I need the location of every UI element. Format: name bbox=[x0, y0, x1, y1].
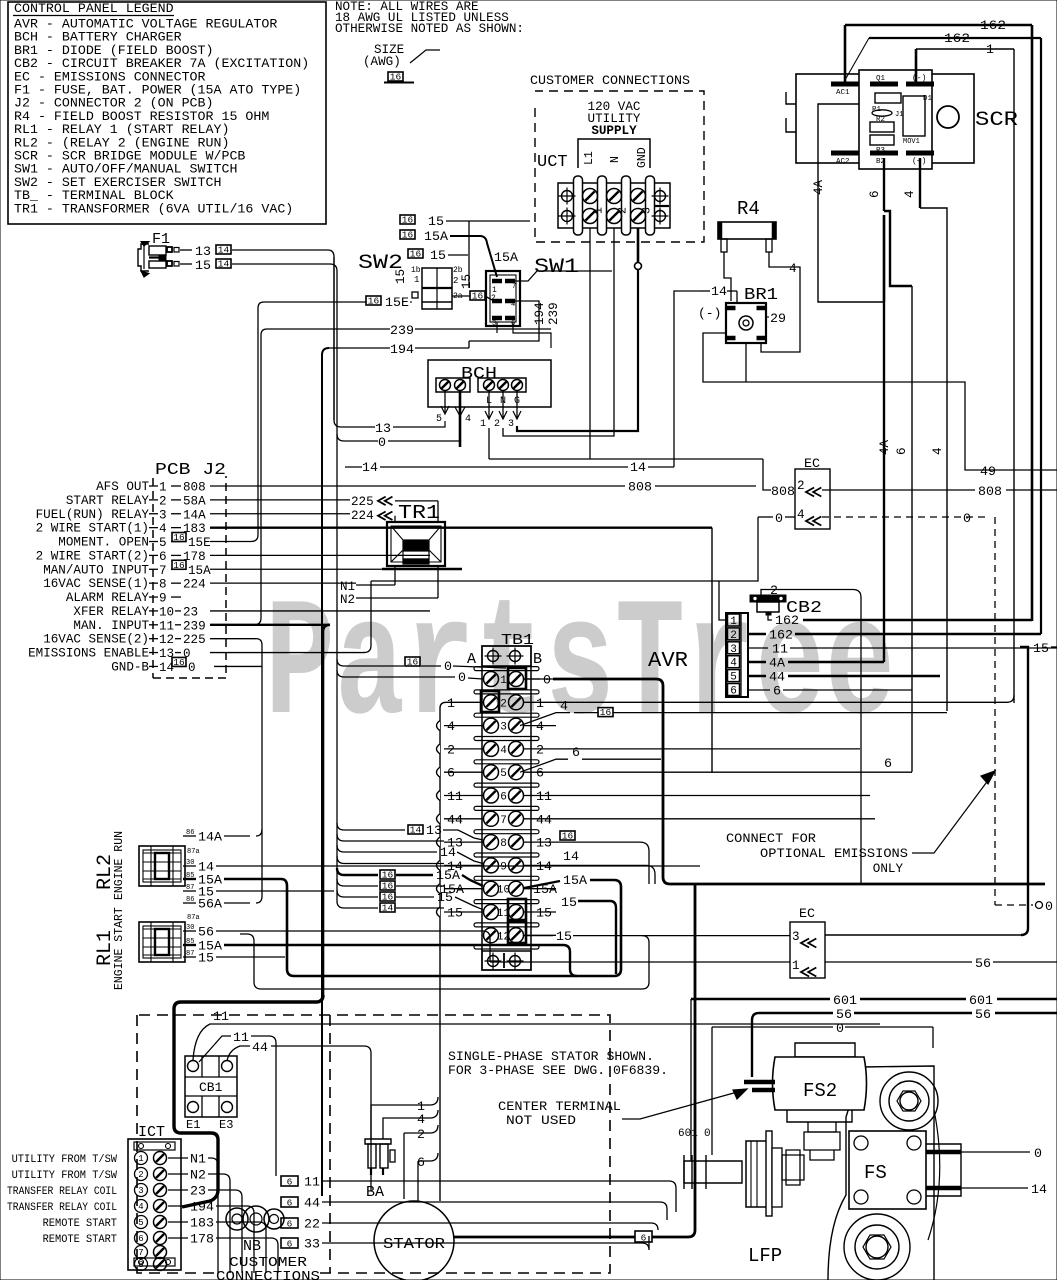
svg-text:15: 15 bbox=[561, 895, 577, 910]
svg-text:LFP: LFP bbox=[748, 1245, 782, 1267]
svg-text:56: 56 bbox=[198, 925, 214, 940]
svg-text:START RELAY: START RELAY bbox=[66, 494, 150, 508]
svg-text:239: 239 bbox=[390, 323, 414, 338]
svg-text:6: 6 bbox=[159, 550, 167, 564]
customer connections dashed box bottom bbox=[137, 1015, 610, 1273]
svg-text:ENGINE RUN: ENGINE RUN bbox=[113, 831, 126, 900]
B9 wire 14 hook bbox=[556, 865, 655, 884]
B2 wire 1 long bbox=[556, 695, 1014, 702]
svg-text:N2: N2 bbox=[190, 1168, 206, 1183]
TB1 A9 stub bbox=[444, 864, 483, 866]
svg-text:R2: R2 bbox=[876, 116, 885, 124]
svg-text:23: 23 bbox=[190, 1184, 206, 1199]
svg-text:33: 33 bbox=[304, 1237, 320, 1252]
svg-text:ALARM RELAY: ALARM RELAY bbox=[66, 591, 150, 605]
svg-text:16: 16 bbox=[382, 892, 394, 903]
svg-text:0: 0 bbox=[963, 511, 971, 526]
svg-text:56: 56 bbox=[975, 1007, 991, 1022]
svg-text:FUEL(RUN) RELAY: FUEL(RUN) RELAY bbox=[36, 508, 150, 522]
svg-text:178: 178 bbox=[190, 1232, 214, 1247]
TB1 A10 stub bbox=[444, 888, 483, 890]
svg-text:3: 3 bbox=[138, 1186, 143, 1196]
svg-text:3: 3 bbox=[641, 207, 654, 214]
wire 4A from SCR bbox=[818, 104, 884, 302]
svg-text:14A: 14A bbox=[198, 830, 222, 845]
svg-text:162: 162 bbox=[944, 31, 970, 46]
svg-text:8: 8 bbox=[159, 578, 167, 592]
wire 162 top bbox=[844, 25, 847, 82]
svg-text:TRANSFER RELAY COIL: TRANSFER RELAY COIL bbox=[7, 1186, 117, 1198]
CB1 wire 44 bbox=[227, 1046, 250, 1061]
svg-text:4A: 4A bbox=[812, 179, 826, 195]
svg-text:162: 162 bbox=[769, 628, 793, 643]
svg-text:6: 6 bbox=[287, 1219, 293, 1230]
J2 row7 15A bbox=[210, 568, 430, 570]
svg-text:58A: 58A bbox=[183, 494, 206, 508]
svg-text:183: 183 bbox=[190, 1216, 214, 1231]
ICT terminal 2 bbox=[135, 1168, 148, 1181]
TB1 row 12 bbox=[474, 923, 539, 927]
svg-text:7: 7 bbox=[512, 283, 516, 291]
verticals 601 0 bbox=[690, 999, 692, 1161]
svg-text:TRANSFER RELAY COIL: TRANSFER RELAY COIL bbox=[7, 1202, 117, 1214]
svg-text:2: 2 bbox=[491, 294, 496, 303]
svg-text:15: 15 bbox=[1033, 641, 1049, 656]
FS2 solenoid bbox=[795, 1043, 855, 1057]
svg-text:6: 6 bbox=[730, 686, 737, 698]
tag into SW1 pin2 bbox=[470, 291, 485, 300]
svg-text:16: 16 bbox=[390, 72, 402, 83]
LFP filter bbox=[746, 1141, 767, 1207]
ICT terminal 7 bbox=[135, 1246, 148, 1259]
TB1 row 9 bbox=[474, 853, 539, 857]
AVR 6-pin plug bbox=[726, 613, 748, 697]
svg-text:4: 4 bbox=[500, 745, 507, 757]
TB1 A4 stub bbox=[444, 748, 483, 750]
svg-text:UCT: UCT bbox=[537, 153, 568, 172]
svg-text:BA: BA bbox=[366, 1184, 384, 1201]
svg-text:11: 11 bbox=[159, 619, 174, 633]
svg-text:601: 601 bbox=[969, 993, 993, 1008]
wire 601 bbox=[691, 998, 830, 1000]
svg-text:162: 162 bbox=[775, 613, 799, 628]
svg-text:16: 16 bbox=[402, 230, 414, 241]
svg-text:4: 4 bbox=[138, 1202, 143, 1212]
J2 wire row1 808 bbox=[210, 485, 625, 487]
plug pin 4 bbox=[728, 656, 740, 668]
svg-text:CONNECT FOR: CONNECT FOR bbox=[726, 832, 816, 846]
svg-text:REMOTE START: REMOTE START bbox=[43, 1234, 118, 1246]
battery charger BCH bbox=[428, 360, 551, 407]
svg-text:2: 2 bbox=[730, 630, 737, 642]
svg-text:TR1 - TRANSFORMER (6VA UTIL/16: TR1 - TRANSFORMER (6VA UTIL/16 VAC) bbox=[14, 201, 293, 216]
svg-text:4: 4 bbox=[931, 447, 945, 455]
svg-text:7: 7 bbox=[138, 1248, 143, 1258]
svg-text:Q1: Q1 bbox=[876, 75, 886, 83]
CB1 wire 11 b bbox=[199, 1036, 231, 1062]
plug pin1 wire up bbox=[719, 517, 758, 620]
svg-text:GND: GND bbox=[636, 147, 649, 168]
svg-text:(-): (-) bbox=[912, 74, 926, 83]
J2 row10 23 bbox=[210, 610, 430, 612]
svg-text:239: 239 bbox=[547, 302, 561, 325]
B3 diag 4 bbox=[520, 713, 570, 726]
svg-text:1: 1 bbox=[447, 696, 455, 711]
B4 wire 2 bbox=[556, 748, 860, 750]
svg-text:3: 3 bbox=[508, 419, 514, 430]
svg-text:14: 14 bbox=[218, 259, 230, 270]
BCH pigtails with arrows bbox=[444, 391, 446, 413]
svg-text:14A: 14A bbox=[183, 508, 206, 522]
svg-text:J1: J1 bbox=[895, 111, 903, 119]
svg-text:6: 6 bbox=[287, 1198, 293, 1209]
plug wires bbox=[748, 633, 766, 635]
svg-text:5: 5 bbox=[500, 768, 507, 780]
svg-text:15: 15 bbox=[428, 214, 444, 229]
SW1 pin7 wire bbox=[515, 271, 612, 281]
TB1 row 3 bbox=[474, 713, 539, 717]
svg-text:FS: FS bbox=[864, 1162, 887, 1184]
svg-text:14: 14 bbox=[1031, 1182, 1047, 1197]
svg-text:MOMENT. OPEN: MOMENT. OPEN bbox=[58, 536, 149, 550]
svg-text:MOV1: MOV1 bbox=[903, 138, 920, 146]
svg-text:4: 4 bbox=[417, 1112, 425, 1127]
svg-text:2: 2 bbox=[617, 207, 630, 214]
svg-text:15: 15 bbox=[195, 258, 211, 273]
TB1 B3 stub bbox=[524, 725, 556, 727]
svg-text:14: 14 bbox=[440, 845, 456, 860]
svg-text:REMOTE START: REMOTE START bbox=[43, 1218, 118, 1230]
svg-text:15A: 15A bbox=[494, 250, 518, 265]
svg-text:UTILITY FROM T/SW: UTILITY FROM T/SW bbox=[12, 1154, 118, 1166]
svg-text:12: 12 bbox=[159, 633, 174, 647]
wire 56 row bbox=[490, 961, 790, 963]
svg-text:224: 224 bbox=[183, 578, 206, 592]
TB1 B12 stub bbox=[524, 934, 556, 936]
top bolt bbox=[880, 1072, 938, 1130]
TB1 A11 stub bbox=[444, 911, 483, 913]
svg-text:0: 0 bbox=[458, 670, 466, 685]
svg-text:194: 194 bbox=[533, 302, 547, 325]
trunk 262 lower (0 to relays) bbox=[256, 639, 262, 836]
wire 15 from F1 bbox=[180, 263, 192, 265]
TB1 A6 stub bbox=[444, 795, 483, 797]
TB1 B6 stub bbox=[524, 795, 556, 797]
svg-text:6: 6 bbox=[895, 447, 909, 455]
svg-text:194: 194 bbox=[390, 342, 414, 357]
B7 wire 44 bbox=[556, 818, 875, 820]
svg-text:B: B bbox=[533, 651, 542, 668]
wire 162 second bbox=[869, 37, 1041, 39]
svg-text:1: 1 bbox=[138, 1154, 143, 1164]
svg-text:CB1: CB1 bbox=[199, 1080, 223, 1095]
svg-text:5: 5 bbox=[436, 414, 442, 425]
svg-text:AVR: AVR bbox=[648, 650, 688, 673]
fan from trunk bbox=[337, 823, 405, 830]
svg-text:CUSTOMER CONNECTIONS: CUSTOMER CONNECTIONS bbox=[530, 73, 690, 88]
svg-text:5: 5 bbox=[138, 1218, 143, 1228]
dashed 0 end bbox=[995, 904, 1033, 906]
thick 0 bus around AVR bbox=[524, 678, 540, 680]
svg-text:6: 6 bbox=[287, 1177, 293, 1188]
svg-text:13: 13 bbox=[195, 244, 211, 259]
svg-text:15E: 15E bbox=[188, 536, 211, 550]
svg-text:1: 1 bbox=[414, 275, 419, 285]
svg-text:CONNECTIONS: CONNECTIONS bbox=[216, 1269, 320, 1280]
svg-text:N: N bbox=[609, 156, 622, 163]
SCR pads bbox=[831, 82, 859, 87]
svg-text:1: 1 bbox=[792, 959, 800, 973]
svg-text:0: 0 bbox=[704, 1128, 711, 1140]
ICT terminal 6 bbox=[135, 1232, 148, 1245]
svg-text:2: 2 bbox=[536, 742, 544, 757]
svg-text:808: 808 bbox=[771, 484, 795, 499]
svg-text:MAN/AUTO INPUT: MAN/AUTO INPUT bbox=[43, 563, 149, 577]
wire 2 bbox=[404, 1133, 424, 1160]
svg-text:11: 11 bbox=[233, 1030, 249, 1045]
svg-text:2: 2 bbox=[447, 742, 455, 757]
BA wires 1 4 bbox=[371, 1105, 424, 1139]
L1 wire to EC 808 bbox=[488, 428, 490, 459]
svg-text:14: 14 bbox=[382, 903, 394, 914]
TB1 B1 stub bbox=[524, 678, 556, 680]
svg-text:9: 9 bbox=[159, 592, 167, 606]
svg-text:16VAC SENSE(2): 16VAC SENSE(2) bbox=[43, 633, 149, 647]
svg-text:3: 3 bbox=[792, 930, 800, 944]
svg-text:(-): (-) bbox=[698, 306, 721, 321]
svg-text:3: 3 bbox=[500, 722, 507, 734]
fan 15A thick bbox=[337, 868, 378, 875]
svg-text:6: 6 bbox=[884, 756, 892, 771]
svg-text:15: 15 bbox=[556, 929, 572, 944]
TB1 row 8 bbox=[474, 830, 539, 834]
svg-text:808: 808 bbox=[183, 481, 206, 495]
svg-text:2: 2 bbox=[417, 1127, 425, 1142]
svg-text:15A: 15A bbox=[563, 873, 587, 888]
wire 13 from F1 bbox=[180, 249, 192, 251]
TB1 A2 stub bbox=[446, 701, 483, 703]
ICT terminal 4 bbox=[135, 1200, 148, 1213]
wire tag rows 11 44 22 33 bbox=[281, 1176, 298, 1186]
svg-text:2: 2 bbox=[500, 698, 507, 710]
svg-text:0: 0 bbox=[543, 673, 551, 688]
svg-text:8: 8 bbox=[500, 838, 507, 850]
svg-text:0: 0 bbox=[188, 661, 196, 675]
TB1 B2 stub bbox=[524, 701, 556, 703]
svg-text:0: 0 bbox=[1034, 1146, 1042, 1161]
svg-text:2 WIRE START(2): 2 WIRE START(2) bbox=[36, 549, 149, 563]
trunk 440 hooks bbox=[430, 1097, 438, 1105]
svg-text:1: 1 bbox=[730, 616, 737, 628]
TB1 A5 stub bbox=[444, 771, 483, 773]
svg-text:A: A bbox=[467, 651, 476, 668]
J2 row8 224/N1 bbox=[210, 582, 356, 584]
wire 15 tag row2 bbox=[408, 249, 423, 258]
svg-text:29: 29 bbox=[770, 311, 786, 326]
svg-text:6: 6 bbox=[868, 190, 882, 198]
svg-text:4: 4 bbox=[465, 414, 471, 425]
svg-text:4: 4 bbox=[797, 508, 805, 522]
svg-text:2: 2 bbox=[494, 419, 500, 430]
stator bbox=[374, 1201, 454, 1280]
wire 4 from SCR bbox=[919, 158, 921, 208]
svg-text:15: 15 bbox=[460, 274, 474, 289]
J2 row4 183 thick bbox=[210, 526, 712, 528]
svg-text:6: 6 bbox=[641, 1233, 647, 1244]
svg-text:1: 1 bbox=[986, 42, 994, 57]
plug pin 3 bbox=[728, 642, 740, 654]
svg-text:4A: 4A bbox=[769, 656, 785, 671]
svg-text:44: 44 bbox=[252, 1040, 268, 1055]
neutral bond NB bbox=[226, 1208, 248, 1230]
svg-text:E1: E1 bbox=[186, 1118, 200, 1132]
svg-text:808: 808 bbox=[978, 484, 1002, 499]
svg-text:239: 239 bbox=[183, 619, 206, 633]
svg-text:16: 16 bbox=[407, 657, 419, 668]
svg-text:6: 6 bbox=[500, 792, 507, 804]
SCR bridge module bbox=[796, 74, 974, 163]
plug pin 2 bbox=[728, 628, 740, 640]
wire 56 thick bbox=[752, 1013, 833, 1077]
B8 wire 13 hook bbox=[560, 831, 575, 840]
svg-text:E3: E3 bbox=[219, 1118, 233, 1132]
svg-text:56A: 56A bbox=[198, 897, 222, 912]
TB1 A3 stub bbox=[444, 725, 483, 727]
B5 wire 6 bbox=[520, 759, 568, 772]
wires 0 14 right bbox=[961, 1151, 1030, 1153]
svg-text:SINGLE-PHASE STATOR SHOWN.: SINGLE-PHASE STATOR SHOWN. bbox=[448, 1050, 654, 1064]
svg-text:14: 14 bbox=[630, 460, 646, 475]
FS valve bbox=[849, 1131, 926, 1209]
svg-text:N1: N1 bbox=[190, 1152, 206, 1167]
ICT terminal 5 bbox=[135, 1216, 148, 1229]
svg-text:87a: 87a bbox=[187, 848, 200, 856]
svg-text:1: 1 bbox=[593, 207, 606, 214]
svg-text:44: 44 bbox=[447, 812, 463, 827]
trunk 334 (13) bbox=[334, 257, 341, 427]
SW1 194/239 wires bbox=[469, 301, 539, 341]
BR1 (-) loop and wire 49 bbox=[703, 333, 1057, 470]
svg-text:15A: 15A bbox=[436, 868, 460, 883]
TB1 B11 stub bbox=[524, 911, 556, 913]
svg-text:87a: 87a bbox=[187, 914, 200, 922]
TB1 row 1 bbox=[474, 667, 539, 671]
plug pin 5 bbox=[728, 670, 740, 682]
svg-text:16: 16 bbox=[368, 296, 380, 307]
B10 15A thick loop bbox=[524, 881, 560, 888]
svg-text:3: 3 bbox=[730, 644, 737, 656]
wire 808 right bbox=[822, 489, 975, 491]
svg-text:16: 16 bbox=[402, 215, 414, 226]
TB1 row 6 bbox=[474, 783, 539, 787]
thick trunk into box bbox=[174, 995, 323, 1207]
svg-text:4: 4 bbox=[511, 301, 515, 309]
R4 left leg wire bbox=[724, 252, 731, 301]
svg-text:ENGINE START: ENGINE START bbox=[113, 907, 126, 990]
svg-text:16VAC SENSE(1): 16VAC SENSE(1) bbox=[43, 577, 149, 591]
svg-text:601: 601 bbox=[833, 993, 857, 1008]
svg-text:AC1: AC1 bbox=[836, 89, 850, 97]
bottom bolt bbox=[844, 1214, 910, 1280]
ICT terminal 8 bbox=[135, 1258, 148, 1271]
svg-text:4: 4 bbox=[560, 699, 568, 714]
svg-text:56: 56 bbox=[975, 956, 991, 971]
TB1 A1 stub bbox=[337, 659, 404, 666]
plug pin 1 bbox=[728, 614, 740, 626]
svg-text:11: 11 bbox=[304, 1175, 320, 1190]
svg-text:0: 0 bbox=[444, 659, 452, 674]
svg-text:15: 15 bbox=[430, 248, 446, 263]
ICT terminal 3 bbox=[135, 1184, 148, 1197]
svg-text:4: 4 bbox=[789, 262, 797, 276]
plug pin 6 bbox=[728, 684, 740, 696]
svg-text:56: 56 bbox=[836, 1007, 852, 1022]
CB2 wire 2 bbox=[761, 590, 861, 885]
svg-text:SCR: SCR bbox=[975, 109, 1018, 132]
svg-text:SUPPLY: SUPPLY bbox=[591, 124, 637, 138]
svg-text:4: 4 bbox=[447, 719, 455, 734]
CB2 wire 162 bbox=[768, 615, 772, 620]
svg-text:6: 6 bbox=[536, 766, 544, 781]
TB1 row 10 bbox=[474, 876, 539, 880]
svg-text:OTHERWISE NOTED AS SHOWN:: OTHERWISE NOTED AS SHOWN: bbox=[335, 22, 524, 36]
svg-text:16: 16 bbox=[410, 249, 422, 260]
TB1 B4 stub bbox=[524, 748, 556, 750]
svg-text:2: 2 bbox=[453, 276, 458, 286]
TB1 B7 stub bbox=[524, 818, 556, 820]
svg-text:225: 225 bbox=[351, 495, 374, 509]
TB1 black cells bbox=[508, 668, 526, 689]
svg-text:13: 13 bbox=[426, 823, 442, 838]
svg-text:2b: 2b bbox=[453, 266, 463, 275]
svg-text:2: 2 bbox=[770, 583, 778, 598]
svg-text:PCB J2: PCB J2 bbox=[155, 461, 226, 480]
svg-text:14: 14 bbox=[711, 284, 727, 299]
svg-text:10: 10 bbox=[159, 605, 174, 619]
svg-text:XFER RELAY: XFER RELAY bbox=[73, 605, 149, 619]
svg-text:0: 0 bbox=[1045, 899, 1053, 914]
svg-text:SW1: SW1 bbox=[534, 256, 579, 279]
svg-text:5: 5 bbox=[730, 672, 737, 684]
svg-text:14: 14 bbox=[563, 849, 579, 864]
svg-text:6: 6 bbox=[447, 766, 455, 781]
svg-text:162: 162 bbox=[980, 18, 1006, 33]
svg-text:3: 3 bbox=[492, 320, 496, 328]
svg-text:15: 15 bbox=[198, 951, 214, 966]
FS right block bbox=[926, 1144, 961, 1196]
fitting below FS2 bbox=[808, 1122, 836, 1132]
svg-text:N1: N1 bbox=[340, 580, 355, 594]
svg-text:4: 4 bbox=[903, 190, 917, 198]
TB1 row 11 bbox=[474, 900, 539, 904]
svg-text:3: 3 bbox=[159, 508, 167, 522]
svg-text:1: 1 bbox=[159, 481, 167, 495]
trunk 262 upper (15E) bbox=[251, 302, 264, 542]
svg-text:1: 1 bbox=[536, 696, 544, 711]
wire 15A tag row bbox=[400, 230, 415, 239]
svg-text:MAN. INPUT: MAN. INPUT bbox=[73, 619, 149, 633]
TB1 row 5 bbox=[474, 760, 539, 764]
svg-text:2: 2 bbox=[159, 494, 167, 508]
J2 row5 15E bbox=[210, 541, 251, 543]
svg-text:NB: NB bbox=[243, 1238, 261, 1255]
svg-text:7: 7 bbox=[500, 815, 507, 827]
svg-text:4: 4 bbox=[536, 719, 544, 734]
svg-text:1: 1 bbox=[480, 419, 486, 430]
J2 row11 239 thick bbox=[210, 624, 330, 626]
J2 row3 14A to TR1 224 bbox=[210, 513, 350, 515]
ICT terminal 1 bbox=[135, 1152, 148, 1165]
